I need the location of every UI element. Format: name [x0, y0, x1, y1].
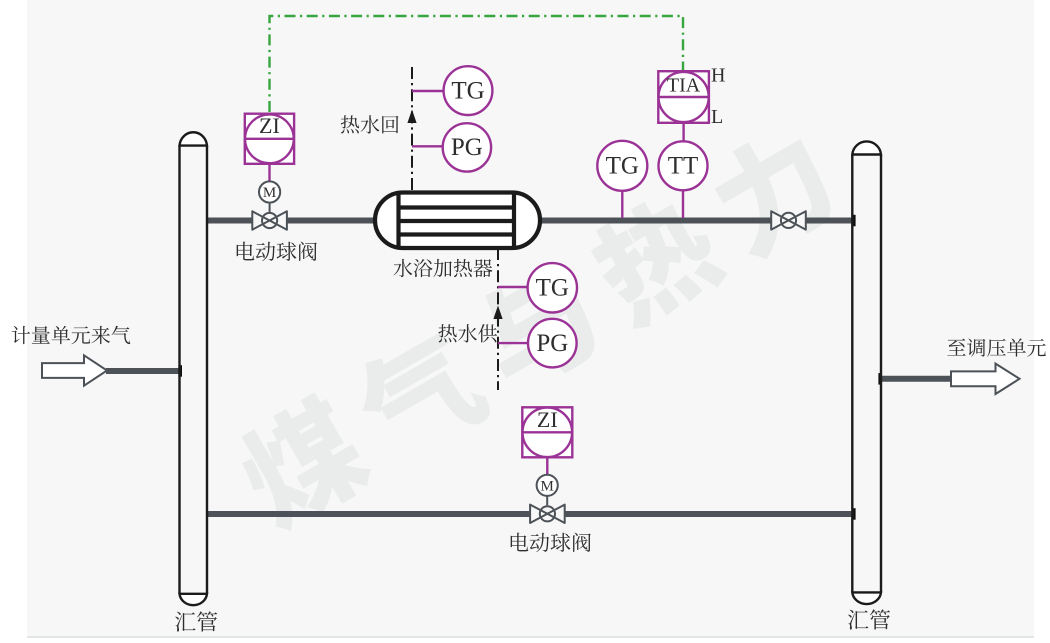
svg-text:ZI: ZI [537, 407, 558, 432]
manual ball valve (top pipe) [780, 212, 797, 229]
instrument TT [659, 141, 708, 190]
instrument PG (supply) [528, 319, 577, 368]
node: pipe-header junctions [852, 215, 856, 227]
right header vessel 汇管 [852, 155, 881, 593]
wire: bottom gas pipe [207, 511, 853, 517]
svg-text:TIA: TIA [667, 75, 701, 97]
signal ZI2 to motor [546, 457, 548, 475]
svg-text:PG: PG [451, 134, 483, 161]
connector PG1 [412, 145, 443, 147]
instrument TG (top pipe) [597, 141, 647, 191]
connector TG1 [412, 90, 444, 92]
wire: top gas pipe [207, 218, 853, 224]
instrument TG (return) [444, 66, 493, 115]
label 热水回 [341, 115, 399, 133]
instrument PG (return) [443, 123, 491, 171]
label 电动球阀 (top) [237, 242, 317, 262]
svg-text:M: M [263, 185, 276, 201]
connector TG2 [621, 191, 623, 218]
label 汇管 (right) [848, 609, 890, 629]
motorized ball valve (bottom) [539, 505, 556, 522]
connector TT [682, 190, 684, 218]
svg-text:ZI: ZI [259, 113, 280, 138]
instrument TG (supply) [528, 263, 577, 312]
hot water supply line (dash-dot) [497, 248, 499, 390]
hot water return line (dash-dot) [411, 67, 413, 193]
watermark 煤气与热力 [226, 119, 844, 540]
motor stem (bottom valve) [546, 495, 548, 506]
label 计量单元来气 [12, 326, 130, 344]
motor M (bottom valve) [537, 475, 558, 496]
svg-text:PG: PG [536, 330, 568, 357]
label 汇管 (left) [175, 611, 217, 631]
connector TG (supply) [498, 286, 528, 288]
connector PG (supply) [498, 342, 528, 344]
flow arrow up on supply line [493, 306, 502, 320]
svg-text:M: M [541, 479, 554, 495]
outlet flow arrow [951, 364, 1020, 394]
svg-text:L: L [711, 106, 723, 128]
wire: inlet pipe [106, 368, 180, 374]
label 电动球阀 (bottom) [511, 533, 591, 553]
svg-text:TG: TG [606, 153, 639, 180]
label 热水供 [438, 324, 497, 342]
wire: outlet pipe [880, 376, 951, 382]
flow arrow up on return line [407, 110, 416, 124]
instrument TIA [658, 71, 709, 123]
svg-text:TT: TT [668, 153, 699, 180]
label 至调压单元 [947, 338, 1046, 356]
water bath heater vessel [375, 193, 540, 249]
motor M (top valve) [259, 181, 280, 202]
instrument ZI (top) [245, 114, 294, 164]
label 水浴加热器 [394, 259, 493, 277]
svg-text:TG: TG [451, 77, 484, 104]
svg-text:TG: TG [536, 275, 569, 302]
svg-text:H: H [711, 64, 725, 86]
left header vessel 汇管 [180, 146, 208, 594]
signal line (green dash-dot) ZI to TIA [270, 16, 684, 112]
motorized ball valve (top) [261, 212, 278, 229]
inlet flow arrow [42, 355, 107, 385]
signal TIA to TT [682, 123, 684, 142]
motor stem (top valve) [269, 202, 271, 213]
instrument ZI (bottom) [522, 407, 572, 457]
signal ZI1 to motor [268, 164, 270, 182]
